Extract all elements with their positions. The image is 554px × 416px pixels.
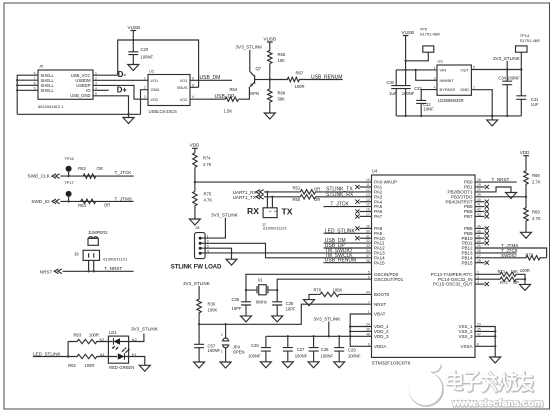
svg-text:RX: RX (247, 206, 259, 216)
svg-text:OPEN: OPEN (233, 349, 245, 354)
no-connect PB6 (475, 211, 485, 213)
svg-text:2: 2 (221, 333, 223, 337)
svg-text:61300211121: 61300211121 (103, 256, 128, 261)
connector J8 STLINK FW LOAD (195, 225, 209, 258)
junction divider (194, 181, 196, 183)
wire OSCIN to crystal (246, 274, 372, 290)
svg-text:T_NRST: T_NRST (104, 266, 122, 271)
node SWD_CLK input (28, 174, 60, 179)
svg-text:TP17: TP17 (64, 180, 74, 185)
ground (U3) (487, 116, 498, 126)
capacitor C36 10PF (272, 290, 296, 316)
svg-text:R51: R51 (293, 186, 301, 191)
junction crystal nodes (245, 289, 247, 291)
svg-text:1UF: 1UF (389, 91, 397, 96)
svg-text:LED_STLINK: LED_STLINK (33, 351, 62, 356)
svg-text:T_NRST: T_NRST (492, 177, 510, 182)
svg-text:VDD_3: VDD_3 (374, 334, 389, 339)
svg-text:UART1_TX: UART1_TX (233, 195, 256, 200)
capacitor C35 10PF (232, 290, 252, 316)
svg-text:3V3_STLINK: 3V3_STLINK (211, 213, 239, 218)
svg-text:D+: D+ (117, 86, 128, 95)
capacitor C28 100NF (309, 336, 334, 362)
ground (PB2) (506, 193, 517, 199)
svg-text:J9: J9 (74, 251, 79, 256)
test point TP14 S1751-46R (516, 33, 541, 70)
svg-text:OR: OR (314, 197, 320, 202)
svg-text:R62: R62 (78, 166, 86, 171)
svg-text:SHELL: SHELL (41, 88, 55, 93)
node VDD (R68) (520, 150, 530, 171)
svg-text:5: 5 (473, 66, 475, 70)
svg-text:100NF: 100NF (321, 354, 334, 359)
svg-text:U3: U3 (438, 59, 444, 64)
wire J8 pin4 to TM_SWDIO (200, 252, 371, 254)
resistor R65 10K (268, 50, 286, 63)
svg-text:4.7K: 4.7K (203, 162, 212, 167)
no-connect PB15 (475, 262, 485, 264)
junction OUT rail (506, 68, 508, 70)
wire R64 to Q7 emitter (239, 87, 250, 99)
svg-text:100R: 100R (520, 268, 530, 273)
resistor R51 OR (293, 186, 372, 194)
svg-text:K2: K2 (100, 337, 106, 342)
wire VSS bus (475, 327, 495, 358)
wire J8 pin1 to 3V3 (200, 218, 225, 239)
resistor R64 1.5K (215, 87, 239, 113)
wire INHIBIT tie (416, 70, 437, 80)
ground (R66) (264, 113, 275, 119)
wire VIN rail (396, 69, 437, 71)
svg-text:NP: NP (513, 280, 519, 285)
svg-text:R75: R75 (204, 191, 212, 196)
wire USB_DM stub (190, 79, 232, 81)
jumper JP4 OPEN (221, 324, 245, 362)
ground (C29) (334, 362, 345, 368)
resistor R66 36K (268, 89, 286, 113)
junction UART taps (266, 191, 268, 193)
svg-text:BOOT0: BOOT0 (374, 292, 390, 297)
svg-text:INHIBIT: INHIBIT (440, 78, 455, 83)
wire UART1_RX to R51 (264, 191, 300, 193)
svg-text:OUT: OUT (461, 67, 470, 72)
ground (J8 pin3) (226, 259, 237, 265)
wire OUT rail (471, 69, 521, 71)
node UART1_TX input (233, 195, 264, 201)
wire PB3/JTDO to R68/R69 node (475, 196, 526, 198)
jumper cap JUMPER2 (88, 230, 108, 245)
svg-text:TX: TX (282, 207, 293, 217)
ground (C28) (308, 362, 319, 368)
svg-text:GND: GND (151, 87, 160, 92)
svg-text:3V3_STLINK: 3V3_STLINK (131, 327, 159, 332)
wire 3V3 decoupling rail (266, 335, 372, 337)
svg-text:I/O1: I/O1 (180, 78, 188, 83)
svg-text:PC15-OSC32_OUT: PC15-OSC32_OUT (433, 282, 473, 287)
svg-text:R71: R71 (498, 269, 506, 274)
wire PB2/BOOT1 to ground (475, 187, 511, 193)
wire/label T_JTCK stub (324, 202, 372, 208)
wire U2 GND to ground line (141, 90, 149, 115)
svg-text:2: 2 (144, 86, 146, 90)
no-connect PA pin x-mark (360, 211, 372, 213)
svg-text:C20: C20 (141, 47, 149, 52)
junction VIN rail (404, 69, 406, 71)
svg-text:10PF: 10PF (232, 306, 242, 311)
svg-text:R67: R67 (296, 71, 304, 76)
svg-text:4: 4 (434, 86, 436, 90)
junction J9 pins (87, 270, 89, 272)
transistor Q7 NPN (250, 66, 270, 96)
svg-text:VSSA: VSSA (460, 344, 472, 349)
wire ground line (17, 113, 140, 115)
wire J9 pins to NRST (89, 260, 94, 271)
no-connect PB4 (475, 201, 485, 203)
no-connect PB7 (475, 215, 485, 217)
svg-text:PB7: PB7 (464, 214, 473, 219)
svg-text:S1751-46R: S1751-46R (420, 31, 440, 36)
svg-text:SWD_IO: SWD_IO (31, 199, 50, 204)
wire R74 to R75 (194, 167, 196, 191)
svg-text:VBUS: VBUS (177, 85, 188, 90)
connector J5 (USB) (34, 64, 97, 109)
svg-text:USB_DM: USB_DM (200, 75, 221, 81)
svg-text:R65: R65 (278, 52, 286, 57)
svg-text:VSS_3: VSS_3 (458, 334, 473, 339)
svg-text:R72: R72 (500, 280, 508, 285)
wire 3V3 stub (506, 61, 508, 70)
svg-text:OR: OR (314, 187, 320, 192)
wire VBUS stub (190, 86, 199, 88)
resistor R63 OR (SWD_IO) (78, 199, 110, 208)
ground (VSS) (490, 357, 501, 363)
node SWD_IO input (31, 199, 59, 204)
svg-text:100NF: 100NF (248, 354, 261, 359)
svg-text:R30: R30 (208, 301, 216, 306)
wire 3V3 stub (decoupling) (328, 322, 330, 337)
ground (R70) (304, 300, 315, 306)
ground (JP4) (220, 362, 231, 368)
wire VDD bus (VBAT/VDD/VDDA) (350, 314, 371, 346)
svg-text:100K: 100K (333, 287, 343, 292)
svg-text:3V3_STLINK: 3V3_STLINK (493, 56, 521, 61)
svg-text:STLINK_RX: STLINK_RX (326, 192, 354, 198)
svg-text:5: 5 (192, 83, 194, 87)
wire U2 I/O2 to R64 (190, 98, 225, 100)
test point TP (SWD_IO) (66, 191, 72, 203)
svg-text:3: 3 (144, 95, 146, 99)
wire NRST to T_NRST (63, 270, 134, 272)
no-connect PB9 (475, 232, 485, 234)
svg-text:R69: R69 (532, 210, 540, 215)
svg-text:I/O2: I/O2 (180, 97, 188, 102)
svg-text:A1: A1 (100, 352, 106, 357)
svg-text:JUMPER2: JUMPER2 (88, 230, 108, 235)
svg-text:NRST: NRST (40, 270, 53, 275)
svg-text:3V3_STLINK: 3V3_STLINK (314, 317, 342, 322)
connector J9 61300211121 (74, 250, 128, 261)
wire SWD_CLK to T_JTCK (60, 175, 133, 177)
svg-text:C27: C27 (297, 347, 305, 352)
junction U3 GND (491, 115, 493, 117)
svg-text:1: 1 (268, 211, 272, 213)
no-connect PB11 (475, 242, 485, 244)
junction NRST net (198, 323, 200, 325)
no-connect PA pin x-mark (360, 186, 372, 188)
junction ground rail (404, 115, 406, 117)
resistor R74 4.7K (193, 153, 212, 167)
svg-text:VUSB: VUSB (128, 25, 141, 30)
watermark logo + text (decorative) (410, 365, 543, 410)
svg-text:PA15: PA15 (374, 260, 385, 265)
MCU U4 STM32F103C8T6 (366, 169, 481, 367)
svg-text:U2: U2 (149, 69, 155, 74)
svg-text:4.7K: 4.7K (204, 198, 213, 203)
resistor R72 NP (PC14) (475, 277, 525, 285)
svg-text:6610061812 1: 6610061812 1 (38, 104, 64, 109)
wire USBDP J5 to U2 (93, 85, 148, 99)
svg-text:100R: 100R (84, 363, 94, 368)
svg-text:12: 12 (366, 188, 370, 192)
capacitor C29 100NF (334, 336, 361, 362)
svg-text:R74: R74 (203, 156, 211, 161)
svg-text:VBAT: VBAT (374, 312, 386, 317)
svg-text:3V3_STLINK: 3V3_STLINK (236, 45, 264, 50)
resistor R71 10K (PC13) (475, 269, 525, 279)
wire R65 to node (269, 64, 271, 89)
svg-text:X1: X1 (258, 278, 264, 283)
svg-text:OR: OR (97, 166, 103, 171)
no-connect PC15 (475, 283, 485, 285)
node VDD (divider) (190, 143, 200, 153)
capacitor C34 100NF (498, 70, 520, 116)
svg-text:R62: R62 (68, 363, 76, 368)
resistor R68 2.7K (524, 171, 541, 197)
svg-text:C30: C30 (386, 80, 394, 85)
svg-text:3V3_STLINK: 3V3_STLINK (183, 281, 211, 286)
ground (R75) (189, 219, 200, 225)
svg-text:4: 4 (192, 95, 194, 99)
svg-text:R70: R70 (314, 287, 322, 292)
svg-text:Q7: Q7 (256, 66, 262, 71)
svg-text:R66: R66 (278, 91, 286, 96)
svg-text:BYPASS: BYPASS (440, 87, 456, 92)
capacitor C20 100NF (128, 40, 153, 65)
svg-text:36K: 36K (278, 96, 286, 101)
svg-text:6: 6 (192, 76, 194, 80)
wire OSCOUT to crystal (277, 279, 371, 290)
svg-text:VDD: VDD (190, 143, 200, 148)
wire/label USB_RENUM stub (324, 258, 372, 264)
wire UART1_TX to R50 (264, 196, 300, 198)
svg-text:100NF: 100NF (295, 354, 308, 359)
svg-text:100NF: 100NF (208, 348, 221, 353)
svg-text:100NF: 100NF (402, 91, 415, 96)
wire NRST net (199, 304, 371, 324)
svg-text:1: 1 (434, 66, 436, 70)
svg-text:10K: 10K (278, 58, 286, 63)
svg-text:U4: U4 (372, 169, 378, 174)
svg-text:100R: 100R (295, 84, 305, 89)
svg-text:I/O1: I/O1 (151, 78, 159, 83)
connector J7 61300211121 (262, 192, 288, 231)
junction VSS bus (494, 330, 496, 332)
ground (USB) (123, 114, 134, 123)
svg-text:USB_DP: USB_DP (215, 94, 236, 100)
junction SHELL bus (16, 79, 18, 81)
no-connect PA pin x-mark (360, 201, 372, 203)
svg-text:PB15: PB15 (461, 260, 473, 265)
svg-text:C28: C28 (321, 347, 329, 352)
node VUSB (regulator input) (402, 30, 415, 70)
svg-text:100NF: 100NF (141, 55, 154, 60)
svg-text:PA7: PA7 (374, 214, 383, 219)
wire Q7 collector (249, 50, 251, 72)
ground (C36) (272, 316, 283, 322)
resistor R30 100K (197, 286, 218, 324)
ground (C27) (282, 362, 293, 368)
wire/label USB_DP stub (324, 243, 372, 249)
LED LD1 RED-GREEN (108, 330, 134, 370)
svg-text:RED-GREEN: RED-GREEN (109, 365, 134, 370)
ground (C26) (260, 362, 271, 368)
svg-text:R50: R50 (293, 197, 301, 202)
wire IO stub (93, 89, 109, 91)
svg-text:3: 3 (434, 76, 436, 80)
ground (R69) (521, 232, 532, 238)
wire LED to ground (129, 357, 145, 366)
svg-text:34: 34 (366, 249, 370, 253)
svg-text:T_JTCK: T_JTCK (115, 170, 133, 175)
wire regulator ground rail (396, 115, 521, 117)
svg-text:NPN: NPN (250, 91, 259, 96)
wire USB_GND to ground line (93, 96, 129, 115)
svg-text:S1751-46R: S1751-46R (520, 38, 540, 43)
svg-text:2: 2 (273, 211, 277, 213)
capacitor C27 100NF (283, 336, 308, 362)
capacitor C30 1UF (386, 70, 401, 116)
node NRST input (40, 269, 62, 275)
svg-text:NRST: NRST (374, 302, 387, 307)
svg-text:GND: GND (460, 87, 469, 92)
svg-text:R64: R64 (230, 87, 238, 92)
capacitor C32 10NF (bypass) (416, 90, 437, 116)
svg-text:4.7K: 4.7K (532, 216, 541, 221)
junction decoupling rail (287, 335, 289, 337)
wire divider to PA0 (195, 181, 372, 183)
wire LED net (33, 342, 68, 357)
svg-text:61300211121: 61300211121 (263, 226, 288, 231)
resistor R75 4.7K (193, 191, 213, 219)
resistor R50 OR (293, 195, 372, 203)
svg-text:C29: C29 (348, 347, 356, 352)
ground (C35) (241, 316, 252, 322)
resistor R63 100R (LED upper) (68, 333, 108, 344)
no-connect PB5 (475, 206, 485, 208)
svg-text:USB_RENUM: USB_RENUM (325, 258, 356, 264)
svg-text:LD1: LD1 (109, 330, 117, 335)
svg-text:37: 37 (366, 254, 370, 258)
wire SWD_IO to T_JTMS (60, 200, 133, 202)
svg-text:USB_GND: USB_GND (70, 93, 90, 98)
ground (C20) (128, 65, 139, 71)
svg-text:VUSB: VUSB (402, 30, 415, 35)
svg-text:10PF: 10PF (286, 307, 296, 312)
resistor R67 100R (270, 71, 343, 89)
svg-text:USB_RENUM: USB_RENUM (311, 74, 342, 80)
resistor R62 OR (SWD_CLK) (78, 166, 103, 179)
svg-text:1: 1 (221, 350, 223, 354)
node UART1_RX input (233, 190, 264, 196)
svg-text:1UF: 1UF (531, 102, 539, 107)
wire U3 GND to ground (471, 90, 492, 116)
svg-text:10NF: 10NF (423, 106, 434, 111)
wire/label LED_STLINK stub (324, 228, 372, 234)
regulator U3 LD3985M33R (434, 59, 475, 103)
svg-text:USBLC6-2SC6: USBLC6-2SC6 (149, 109, 178, 114)
svg-text:1: 1 (144, 76, 146, 80)
svg-text:STLINK FW LOAD: STLINK FW LOAD (171, 264, 222, 271)
svg-text:I/O2: I/O2 (151, 97, 159, 102)
capacitor C26 100NF (248, 336, 271, 362)
crystal X1 8MHz (246, 278, 277, 305)
no-connect PB1 (475, 186, 485, 188)
node VUSB (left) (128, 25, 141, 41)
svg-text:C36: C36 (286, 301, 294, 306)
svg-text:C26: C26 (251, 343, 259, 348)
svg-text:SWDIO: SWDIO (501, 253, 517, 258)
no-connect PB10 (475, 237, 485, 239)
svg-text:LED_STLINK: LED_STLINK (325, 228, 356, 234)
wire SHELL bus to ground (17, 75, 38, 114)
svg-text:T_JTCK: T_JTCK (330, 202, 349, 208)
svg-text:R63: R63 (78, 203, 86, 208)
svg-text:2: 2 (473, 86, 475, 90)
svg-text:OSCOUT/PD1: OSCOUT/PD1 (374, 277, 404, 282)
no-connect PA pin x-mark (360, 227, 372, 229)
svg-text:100R: 100R (89, 333, 99, 338)
svg-text:10: 10 (366, 178, 370, 182)
ground (LED) (139, 365, 150, 371)
capacitor C57 100NF (194, 324, 220, 362)
test point TP5 S1751-46R (404, 27, 440, 63)
svg-text:C35: C35 (232, 297, 240, 302)
svg-text:T_JTMS: T_JTMS (115, 196, 132, 201)
no-connect PA pin x-mark (360, 237, 372, 239)
wire J8 pin3 to ground (200, 248, 231, 259)
svg-text:13: 13 (366, 193, 370, 197)
resistor R70 100K (BOOT0) (309, 287, 372, 299)
svg-text:TP16: TP16 (64, 156, 74, 161)
wire T_JTCK stub (PB13) (475, 248, 519, 253)
svg-text:R63: R63 (74, 333, 82, 338)
svg-text:VIN: VIN (440, 67, 447, 72)
svg-text:R68: R68 (532, 173, 540, 178)
resistor R62 100R (LED lower) (68, 354, 108, 368)
wire USBDM J5 to U2 (93, 79, 148, 81)
svg-text:VDDA: VDDA (374, 344, 387, 349)
ground (R71/R72) (520, 279, 531, 290)
svg-text:LD3985M33R: LD3985M33R (438, 98, 464, 103)
svg-text:100NF: 100NF (348, 354, 361, 359)
wire/label USB_DM stub (324, 238, 372, 244)
svg-text:VDD: VDD (520, 150, 530, 155)
junction VDD bus (349, 325, 351, 327)
resistor R73 100R (SWDIO PB14) (475, 253, 547, 273)
svg-text:C34 100NF: C34 100NF (498, 75, 520, 80)
capacitor C31 1UF (516, 70, 539, 116)
wire J8 pin2 to TM_SWCLK (200, 243, 371, 257)
